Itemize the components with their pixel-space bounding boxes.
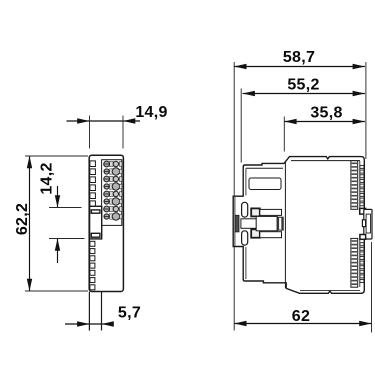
latch spring upper [242, 202, 248, 217]
dimension 62 [234, 308, 371, 326]
dimension 35,8 [284, 105, 365, 125]
module body outline (side view) [233, 157, 364, 294]
extension line (55,2 left) [240, 89, 242, 163]
module body (front view) [89, 155, 123, 291]
svg-text:62,2: 62,2 [14, 203, 31, 235]
slider bar lower [260, 232, 282, 238]
dimension 55,2 [243, 77, 365, 97]
slider bar upper [260, 209, 282, 215]
svg-text:14,2: 14,2 [39, 162, 56, 194]
vent slots (lower) [90, 241, 95, 246]
terminal clamp rows [104, 161, 122, 167]
clamp web [256, 216, 277, 230]
DIN rail flange (section, dark) [235, 215, 239, 232]
rail web bar [241, 219, 257, 229]
extension line (58,7 / 62 left) [233, 62, 235, 331]
terminal screws (lower) [360, 243, 364, 246]
extension line (right, top dims) [365, 62, 367, 159]
svg-text:55,2: 55,2 [287, 77, 319, 94]
dimension 14,9 [67, 104, 168, 149]
terminal screws (upper) [360, 165, 364, 168]
bus connector bracket top tab [360, 208, 366, 214]
bus connector bracket body [364, 209, 372, 239]
dimension 5,7 [65, 305, 141, 327]
extension line (62 right) [371, 242, 373, 333]
dimension 14,2 [39, 162, 85, 263]
inner wall lines (side view) [246, 167, 283, 169]
vent slots (upper) [90, 161, 96, 167]
label window [249, 178, 281, 190]
latch spring lower [242, 231, 248, 245]
dimension 62,2 [14, 156, 88, 291]
foot / rail guide lines [89, 292, 101, 331]
svg-text:5,7: 5,7 [118, 305, 141, 322]
svg-text:14,9: 14,9 [135, 104, 167, 121]
svg-text:35,8: 35,8 [310, 105, 342, 122]
svg-text:58,7: 58,7 [283, 49, 315, 66]
dimension 58,7 [234, 49, 365, 69]
clamp block lower [251, 229, 260, 237]
terminal contact ladder (upper) [351, 161, 358, 210]
terminal contact ladder (lower) [351, 238, 358, 287]
connector box (front view) [90, 206, 102, 239]
clamp web end piece [277, 217, 283, 230]
svg-text:62: 62 [292, 308, 310, 325]
bus connector bracket bottom tab [360, 235, 366, 240]
extension line (35,8 left) [283, 117, 285, 152]
terminal block (front view) [102, 160, 122, 226]
clamp block upper [251, 208, 260, 216]
